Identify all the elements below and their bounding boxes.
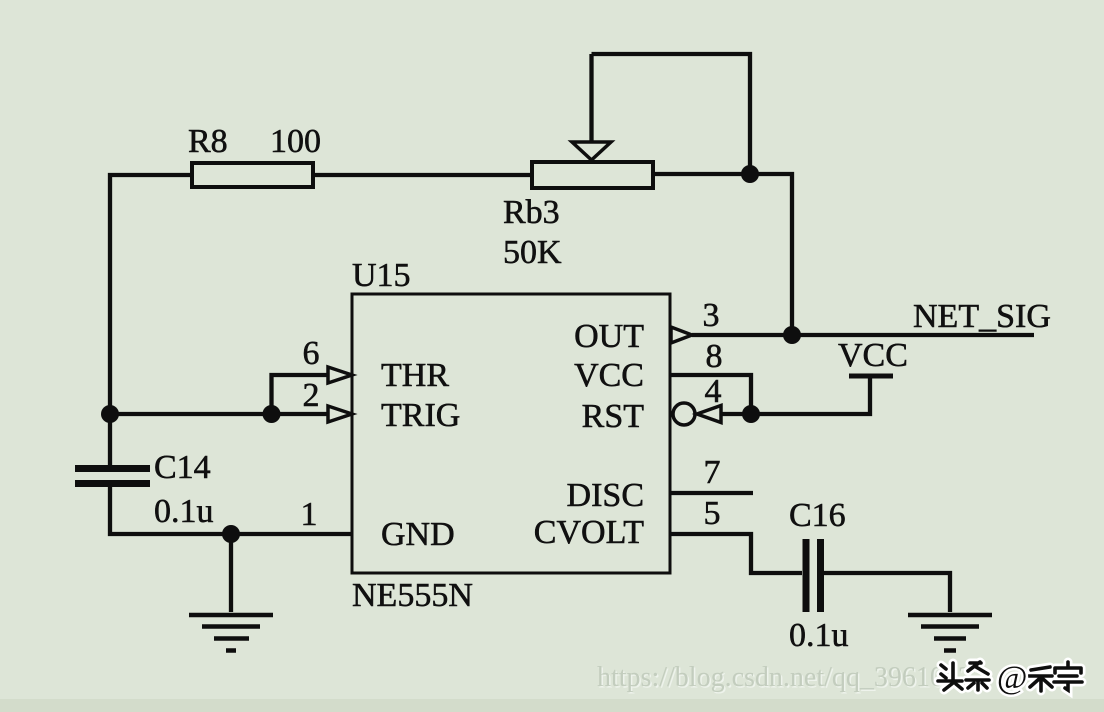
wire from R8 left terminal down the left side to C14 top plate: [110, 175, 192, 466]
wire R8 right terminal to Rb3 left terminal: [313, 173, 532, 177]
pin 3 arrow: [671, 327, 692, 343]
svg-text:VCC: VCC: [838, 337, 908, 374]
svg-text:100: 100: [270, 123, 321, 160]
wire wiper top loop to node A: [592, 54, 751, 174]
svg-text:GND: GND: [381, 516, 455, 553]
wire pin 2 TRIG horizontal: [110, 412, 328, 416]
svg-text:@: @: [997, 660, 1027, 696]
resistor R8: [192, 163, 313, 187]
junction node RST: [742, 405, 760, 423]
svg-text:U15: U15: [352, 257, 411, 294]
svg-text:NE555N: NE555N: [352, 577, 473, 614]
svg-text:DISC: DISC: [567, 477, 644, 514]
svg-text:0.1u: 0.1u: [154, 493, 214, 530]
svg-text:50K: 50K: [503, 234, 562, 271]
svg-text:C16: C16: [789, 497, 846, 534]
svg-text:THR: THR: [381, 357, 449, 394]
watermark url text: [597, 662, 987, 695]
svg-text:7: 7: [704, 454, 721, 491]
wire Rb3 wiper vertical: [589, 54, 593, 143]
svg-text:Rb3: Rb3: [503, 194, 560, 231]
wire Rb3 right terminal down to OUT node: [653, 174, 792, 335]
svg-text:C14: C14: [154, 449, 211, 486]
pin 4 arrow: [697, 406, 721, 423]
IC U1 NE555N body: [352, 294, 670, 573]
svg-text:4: 4: [705, 373, 722, 410]
svg-text:2: 2: [303, 377, 320, 414]
svg-text:0.1u: 0.1u: [789, 617, 849, 654]
svg-text:https://blog.csdn.net/qq_39610: https://blog.csdn.net/qq_39610422: [597, 662, 986, 693]
svg-text:VCC: VCC: [574, 357, 644, 394]
potentiometer Rb3 body: [532, 162, 653, 188]
wire pin 8 VCC down to RST node: [670, 375, 751, 414]
wire GND net drop to left ground: [229, 534, 233, 612]
svg-text:1: 1: [301, 496, 318, 533]
wire pin 5 CVOLT to C16 left plate: [670, 534, 802, 573]
junction node A (top right): [741, 165, 759, 183]
svg-text:NET_SIG: NET_SIG: [913, 298, 1051, 335]
svg-text:3: 3: [703, 297, 720, 334]
pin 6 arrow: [328, 367, 352, 383]
wire pin 4 RST to VCC symbol: [721, 378, 870, 414]
wire pin 7 DISC stub: [670, 491, 753, 495]
wire C14 bottom plate to pin 1 GND: [110, 486, 352, 534]
svg-text:TRIG: TRIG: [381, 397, 460, 434]
junction node GND: [222, 525, 240, 543]
capacitor C14 plates: [75, 469, 150, 484]
pin 2 arrow: [328, 406, 352, 422]
junction node THR/TRIG: [263, 405, 281, 423]
wire pin 3 OUT to NET_SIG: [692, 333, 1034, 337]
wire pin 6 THR jog down to TRIG net: [272, 375, 329, 414]
junction node OUT: [783, 326, 801, 344]
svg-text:8: 8: [706, 338, 723, 375]
svg-text:OUT: OUT: [574, 318, 644, 355]
junction node TRIG left: [101, 405, 119, 423]
pin 4 inversion bubble: [673, 403, 695, 425]
power VCC bar: [849, 374, 893, 379]
ground right: [908, 615, 992, 651]
svg-text:6: 6: [303, 335, 320, 372]
ground left: [189, 615, 273, 651]
svg-text:R8: R8: [188, 123, 228, 160]
svg-text:CVOLT: CVOLT: [534, 514, 644, 551]
potentiometer Rb3 wiper arrow: [572, 142, 611, 160]
capacitor C16 plates: [806, 539, 821, 612]
watermark logo 头条 @禾宇: [938, 662, 1082, 691]
svg-text:5: 5: [704, 495, 721, 532]
wire C16 right plate to ground: [824, 573, 950, 612]
svg-text:RST: RST: [582, 398, 645, 435]
